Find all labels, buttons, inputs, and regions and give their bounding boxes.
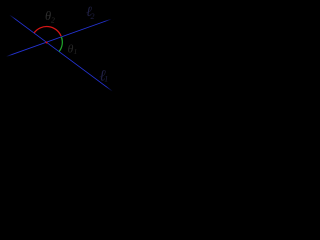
svg-text:1: 1 [104,75,108,84]
vertex dot at intersection [46,41,48,43]
svg-text:1: 1 [74,47,78,56]
line l2 (ascending, bottom-left to top-right) [6,19,111,57]
line l1 (descending, top-left to bottom-right) [10,15,113,92]
svg-text:2: 2 [51,16,55,25]
svg-text:2: 2 [91,12,95,21]
arc theta1 (green, acute angle at right) [59,37,62,52]
arc theta2 (red, obtuse angle over top) [34,27,61,37]
